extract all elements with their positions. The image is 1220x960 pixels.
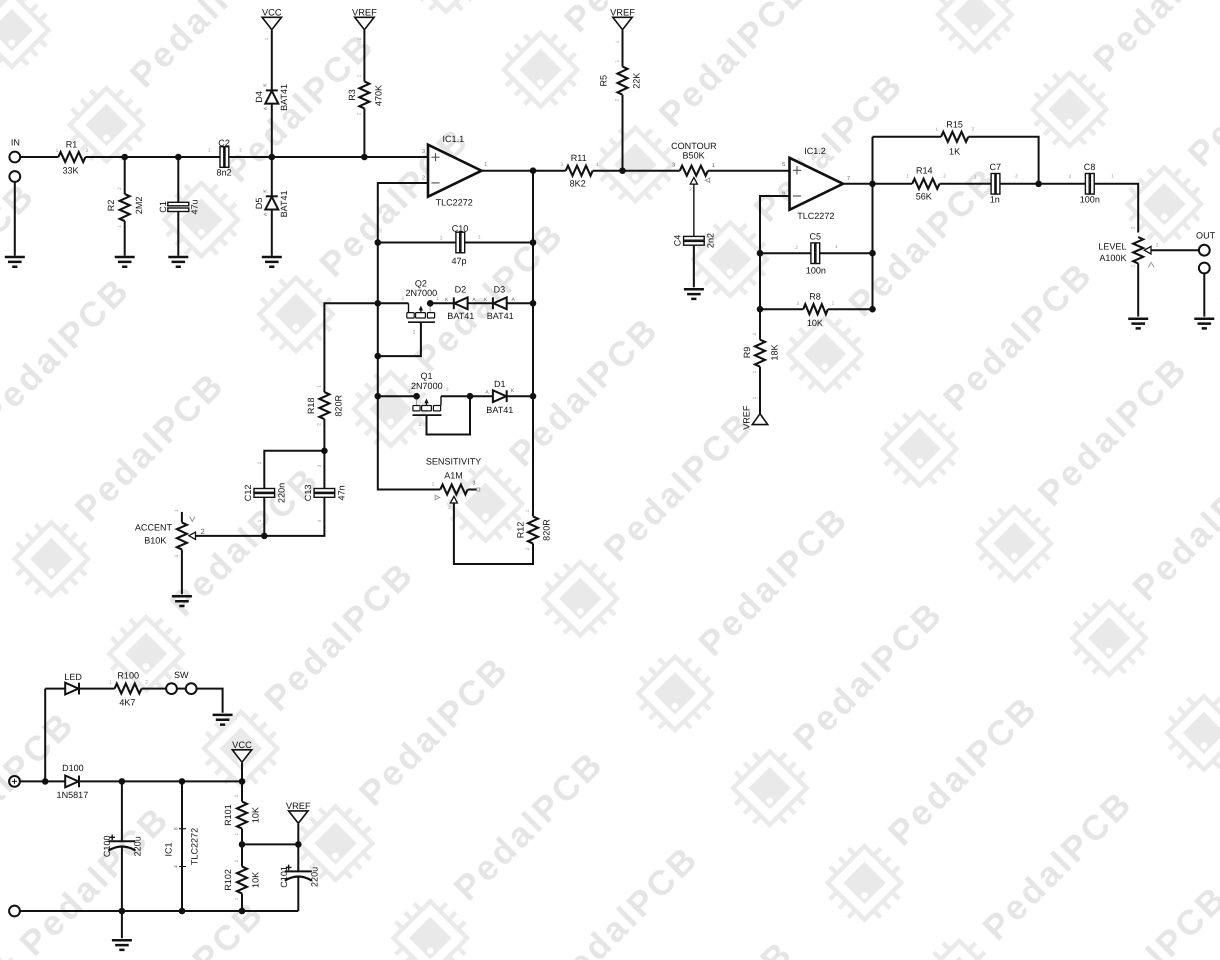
- node: [413, 393, 420, 400]
- resistor R101: [241, 781, 243, 801]
- wire: [465, 242, 533, 244]
- wire: [468, 302, 493, 304]
- svg-text:2: 2: [1156, 243, 1159, 249]
- svg-text:SENSITIVITY: SENSITIVITY: [426, 456, 481, 466]
- svg-text:3: 3: [174, 554, 180, 557]
- svg-text:1: 1: [117, 225, 123, 228]
- svg-text:10K: 10K: [807, 318, 823, 328]
- svg-text:SW: SW: [174, 670, 189, 680]
- svg-text:220u: 220u: [309, 867, 319, 887]
- wire: [20, 780, 65, 782]
- ground: [112, 940, 132, 950]
- capacitor C101: [297, 844, 299, 871]
- wire: [470, 395, 493, 397]
- svg-text:D100: D100: [62, 763, 84, 773]
- svg-text:C2: C2: [218, 138, 230, 148]
- svg-text:IC1.1: IC1.1: [442, 134, 464, 144]
- node: [467, 393, 474, 400]
- svg-text:BAT41: BAT41: [486, 405, 513, 415]
- resistor R14: [912, 179, 939, 189]
- svg-text:BAT41: BAT41: [447, 311, 474, 321]
- svg-text:100n: 100n: [1080, 195, 1100, 205]
- svg-text:C12: C12: [243, 485, 253, 502]
- svg-text:2: 2: [86, 148, 89, 154]
- svg-text:2: 2: [145, 680, 148, 686]
- svg-text:2: 2: [797, 301, 800, 307]
- wire: [468, 489, 477, 491]
- node: [261, 533, 268, 540]
- svg-text:C4: C4: [673, 235, 683, 247]
- svg-text:1N5817: 1N5817: [57, 790, 89, 800]
- wire: [263, 497, 265, 536]
- wire inverting input: [760, 196, 790, 340]
- node: [239, 908, 246, 915]
- capacitor C4: [684, 236, 705, 240]
- diode D5: [271, 157, 273, 196]
- switch SW: [166, 683, 177, 694]
- wire: [760, 252, 811, 254]
- wire: [759, 367, 761, 414]
- svg-text:2: 2: [357, 112, 363, 115]
- wire: [297, 877, 299, 911]
- svg-text:1: 1: [752, 371, 758, 374]
- node: [375, 393, 382, 400]
- node: [530, 300, 537, 307]
- jack IN sleeve: [9, 171, 20, 182]
- svg-text:Q1: Q1: [420, 371, 432, 381]
- wire: [364, 156, 428, 158]
- svg-text:2n2: 2n2: [706, 233, 716, 248]
- node: [530, 393, 537, 400]
- svg-text:C13: C13: [303, 485, 313, 502]
- node: [619, 167, 626, 174]
- wire: [324, 303, 377, 392]
- wire: [197, 689, 223, 713]
- svg-text:4: 4: [173, 865, 179, 868]
- node: [119, 908, 126, 915]
- svg-text:VCC: VCC: [232, 740, 252, 750]
- svg-text:VREF: VREF: [286, 801, 311, 811]
- svg-text:TLC2272: TLC2272: [797, 211, 834, 221]
- wire R15 feedback: [873, 136, 942, 138]
- svg-text:47p: 47p: [451, 256, 466, 266]
- wire: [85, 156, 220, 158]
- capacitor C100: [121, 781, 123, 841]
- svg-text:1: 1: [478, 235, 481, 241]
- resistor R1: [58, 152, 85, 162]
- svg-text:B10K: B10K: [144, 536, 166, 546]
- svg-text:1: 1: [752, 396, 758, 399]
- jack OUT tip: [1199, 245, 1210, 256]
- svg-text:10K: 10K: [250, 807, 260, 823]
- node: [321, 448, 328, 455]
- capacitor C10: [456, 232, 460, 253]
- node: [295, 841, 302, 848]
- svg-text:R8: R8: [809, 291, 821, 301]
- ground: [115, 257, 135, 267]
- svg-text:100n: 100n: [806, 266, 826, 276]
- wire: [242, 843, 298, 845]
- ground: [1128, 319, 1148, 329]
- capacitor C5: [811, 243, 815, 264]
- wire: [593, 170, 680, 172]
- svg-text:1: 1: [1111, 174, 1114, 180]
- svg-text:R102: R102: [223, 869, 233, 891]
- wire: [441, 395, 470, 397]
- wire: [229, 156, 272, 158]
- capacitor C12: [254, 489, 275, 493]
- ground: [213, 715, 233, 725]
- svg-text:10K: 10K: [250, 872, 260, 888]
- node: [530, 239, 537, 246]
- svg-text:3: 3: [446, 387, 449, 393]
- svg-text:ACCENT: ACCENT: [135, 523, 173, 533]
- svg-text:2: 2: [752, 333, 758, 336]
- resistor R8: [803, 304, 828, 314]
- diode D3: [492, 297, 494, 309]
- svg-text:R1: R1: [66, 139, 78, 149]
- power flag VREF: [752, 414, 767, 425]
- svg-text:2: 2: [117, 187, 123, 190]
- resistor R100: [115, 684, 142, 694]
- wire: [760, 308, 803, 310]
- capacitor C2: [220, 147, 224, 168]
- svg-text:1: 1: [408, 388, 411, 394]
- potentiometer LEVEL A100K: [1133, 237, 1143, 263]
- wire output rail: [532, 171, 534, 517]
- svg-text:3: 3: [317, 464, 323, 467]
- svg-text:2M2: 2M2: [134, 197, 144, 215]
- svg-text:VREF: VREF: [352, 7, 377, 17]
- wire: [45, 688, 65, 690]
- node: [869, 181, 876, 188]
- potentiometer CONTOUR B50K: [680, 166, 708, 176]
- wire output: [482, 170, 566, 172]
- svg-text:1: 1: [208, 148, 211, 154]
- svg-text:1: 1: [712, 163, 715, 169]
- svg-text:R15: R15: [946, 119, 963, 129]
- svg-text:D1: D1: [494, 379, 506, 389]
- svg-text:D2: D2: [455, 285, 467, 295]
- wire: [196, 497, 325, 536]
- svg-text:5: 5: [782, 162, 785, 168]
- svg-text:1: 1: [615, 40, 621, 43]
- power flag VCC: [262, 17, 281, 29]
- svg-text:IC1: IC1: [163, 842, 173, 856]
- wire Q2 gate: [378, 322, 421, 356]
- transistor Q1 2N7000: [416, 396, 418, 405]
- wire: [378, 395, 417, 397]
- power flag VCC: [232, 750, 251, 762]
- node: [239, 841, 246, 848]
- wire: [454, 503, 533, 564]
- svg-text:BAT41: BAT41: [279, 190, 289, 217]
- svg-text:VREF: VREF: [742, 405, 752, 430]
- node: [375, 239, 382, 246]
- wire rail: [872, 137, 874, 309]
- svg-text:R9: R9: [742, 347, 752, 359]
- svg-text:1K: 1K: [949, 147, 960, 157]
- svg-text:C10: C10: [452, 223, 469, 233]
- svg-text:LEVEL: LEVEL: [1098, 241, 1126, 251]
- resistor R9: [755, 340, 765, 367]
- svg-text:2: 2: [971, 126, 974, 132]
- svg-text:820R: 820R: [333, 395, 343, 417]
- svg-text:1: 1: [615, 60, 621, 63]
- wire: [1094, 184, 1138, 233]
- power flag VREF: [289, 811, 308, 823]
- node: [427, 300, 434, 307]
- wire: [264, 451, 324, 489]
- svg-text:C8: C8: [1084, 162, 1096, 172]
- svg-text:C1: C1: [158, 201, 168, 213]
- svg-text:LED: LED: [64, 672, 82, 682]
- svg-text:1: 1: [525, 509, 531, 512]
- wire: [693, 184, 695, 236]
- svg-text:2N7000: 2N7000: [411, 381, 443, 391]
- svg-text:D3: D3: [494, 285, 506, 295]
- wire LED rail: [44, 689, 46, 782]
- svg-text:R101: R101: [223, 804, 233, 826]
- wire: [820, 252, 873, 254]
- svg-text:8n2: 8n2: [217, 168, 232, 178]
- node: [239, 778, 246, 785]
- wire: [693, 245, 695, 287]
- wire: [79, 780, 242, 782]
- svg-text:1: 1: [432, 482, 435, 488]
- svg-text:8K2: 8K2: [570, 179, 586, 189]
- svg-text:B50K: B50K: [683, 150, 705, 160]
- ground: [168, 257, 188, 267]
- wire: [323, 419, 325, 451]
- wire: [121, 847, 123, 911]
- resistor R102: [241, 844, 243, 866]
- wire inverting input: [378, 183, 441, 490]
- IC1 power pins: [181, 781, 183, 911]
- node: [361, 154, 368, 161]
- svg-text:1: 1: [264, 37, 270, 40]
- wire: [241, 829, 243, 845]
- svg-text:R100: R100: [117, 671, 139, 681]
- capacitor C13: [314, 489, 335, 493]
- svg-text:2: 2: [418, 422, 421, 428]
- svg-text:R12: R12: [515, 522, 525, 539]
- node: [42, 778, 49, 785]
- node: [269, 154, 276, 161]
- wire: [271, 210, 273, 256]
- svg-text:R11: R11: [571, 153, 587, 163]
- wire: [272, 156, 365, 158]
- svg-text:2: 2: [689, 187, 692, 193]
- svg-text:2: 2: [422, 175, 425, 182]
- wire: [271, 30, 273, 90]
- svg-text:56K: 56K: [916, 192, 932, 202]
- resistor R12: [528, 516, 538, 543]
- capacitor C7: [991, 174, 995, 195]
- ground: [1194, 319, 1214, 329]
- svg-text:47u: 47u: [189, 199, 199, 214]
- op-amp IC1.2: [790, 158, 844, 210]
- svg-text:1: 1: [234, 832, 240, 835]
- wire: [14, 182, 16, 256]
- wire: [181, 512, 183, 523]
- jack IN tip: [9, 152, 20, 163]
- wire: [507, 302, 533, 304]
- wire: [271, 104, 273, 157]
- svg-text:VCC: VCC: [262, 7, 282, 17]
- svg-text:820R: 820R: [542, 519, 552, 541]
- wire: [177, 688, 186, 690]
- power flag VREF: [613, 17, 632, 29]
- svg-text:C100: C100: [102, 835, 112, 857]
- transistor Q2 2N7000: [408, 303, 410, 312]
- svg-text:2: 2: [561, 162, 564, 168]
- ground: [262, 257, 282, 267]
- wire bottom rail: [20, 910, 298, 912]
- svg-text:2: 2: [943, 174, 946, 180]
- potentiometer SENSITIVITY A1M: [440, 485, 467, 495]
- svg-text:1: 1: [174, 509, 180, 512]
- resistor R15: [941, 132, 968, 142]
- LED: [78, 683, 80, 695]
- svg-text:C7: C7: [990, 162, 1002, 172]
- svg-text:2: 2: [440, 236, 443, 242]
- diode D4: [266, 89, 278, 91]
- svg-text:3: 3: [401, 296, 404, 302]
- svg-text:IN: IN: [11, 138, 20, 148]
- op-amp IC1.1: [428, 145, 482, 197]
- resistor R18: [319, 392, 329, 419]
- svg-text:R14: R14: [916, 165, 933, 175]
- svg-text:8: 8: [173, 827, 179, 830]
- ground: [5, 257, 25, 267]
- wire: [828, 308, 873, 310]
- svg-text:2: 2: [795, 245, 798, 251]
- node: [530, 167, 537, 174]
- svg-text:1: 1: [832, 300, 835, 306]
- svg-text:2: 2: [448, 505, 451, 511]
- svg-text:2: 2: [615, 99, 621, 102]
- resistor R5: [618, 67, 628, 95]
- wire output: [843, 183, 912, 185]
- wire: [622, 30, 624, 66]
- wire: [1000, 183, 1086, 185]
- svg-text:BAT41: BAT41: [487, 311, 514, 321]
- wire: [241, 763, 243, 782]
- svg-text:47n: 47n: [336, 485, 346, 500]
- svg-text:2: 2: [525, 547, 531, 550]
- svg-text:18K: 18K: [769, 344, 779, 360]
- svg-text:IC1.2: IC1.2: [804, 146, 826, 156]
- svg-text:3: 3: [422, 148, 425, 155]
- svg-text:1: 1: [974, 175, 977, 181]
- wire: [968, 137, 1038, 184]
- svg-text:4: 4: [317, 519, 323, 522]
- svg-text:C101: C101: [279, 866, 289, 888]
- svg-text:220u: 220u: [132, 836, 142, 856]
- svg-text:C5: C5: [810, 232, 822, 242]
- wire: [507, 395, 533, 397]
- svg-text:2: 2: [413, 329, 416, 335]
- node: [1035, 181, 1042, 188]
- node: [179, 908, 186, 915]
- jack OUT sleeve: [1199, 263, 1210, 274]
- svg-text:A1M: A1M: [444, 470, 463, 480]
- wire: [20, 156, 58, 158]
- wire: [1203, 273, 1205, 316]
- potentiometer ACCENT B10K: [177, 523, 187, 550]
- wire: [297, 824, 299, 845]
- wire: [1137, 263, 1139, 316]
- wire: [622, 95, 624, 171]
- wire: [79, 688, 115, 690]
- svg-text:1: 1: [317, 385, 323, 388]
- svg-text:7: 7: [847, 176, 850, 182]
- wire Q1 gate loop: [427, 396, 471, 434]
- svg-text:33K: 33K: [62, 166, 78, 176]
- wire: [121, 911, 123, 938]
- wire: [940, 183, 992, 185]
- wire: [181, 550, 183, 595]
- svg-text:3: 3: [672, 163, 675, 169]
- svg-text:2: 2: [234, 794, 240, 797]
- svg-text:R5: R5: [599, 75, 609, 87]
- diode D100: [78, 776, 80, 788]
- wire: [378, 302, 409, 304]
- svg-text:3: 3: [472, 481, 475, 487]
- node: [175, 154, 182, 161]
- svg-text:3: 3: [1130, 226, 1136, 229]
- node: [869, 306, 876, 313]
- svg-text:2: 2: [257, 461, 263, 464]
- svg-text:470K: 470K: [374, 85, 384, 106]
- svg-text:R2: R2: [106, 200, 116, 212]
- resistor R3: [359, 81, 369, 108]
- resistor R2: [124, 157, 126, 194]
- svg-text:1n: 1n: [990, 195, 1000, 205]
- svg-text:2: 2: [1015, 174, 1018, 180]
- wire: [363, 108, 365, 157]
- svg-text:1: 1: [906, 174, 909, 180]
- capacitor C8: [1085, 174, 1089, 195]
- svg-text:220n: 220n: [276, 483, 286, 503]
- diode D2: [453, 297, 455, 309]
- wire: [430, 302, 454, 304]
- svg-text:D4: D4: [254, 91, 264, 103]
- svg-text:2: 2: [234, 859, 240, 862]
- svg-text:2: 2: [201, 527, 205, 536]
- svg-text:OUT: OUT: [1196, 230, 1216, 240]
- svg-text:1: 1: [357, 74, 363, 77]
- ground: [172, 596, 192, 606]
- node: [179, 778, 186, 785]
- svg-text:TLC2272: TLC2272: [436, 198, 473, 208]
- wire: [378, 242, 456, 244]
- jack DC positive: [9, 776, 20, 787]
- svg-text:1: 1: [835, 244, 838, 250]
- svg-text:1: 1: [109, 680, 112, 686]
- svg-text:1: 1: [935, 127, 938, 133]
- power flag VREF: [355, 17, 374, 29]
- svg-text:R3: R3: [347, 89, 357, 101]
- wire: [1151, 249, 1199, 251]
- svg-text:TLC2272: TLC2272: [190, 828, 200, 865]
- svg-text:BAT41: BAT41: [279, 84, 289, 111]
- svg-text:1: 1: [484, 162, 487, 168]
- wire: [323, 451, 325, 489]
- svg-text:VREF: VREF: [610, 7, 635, 17]
- diode D1: [506, 390, 508, 402]
